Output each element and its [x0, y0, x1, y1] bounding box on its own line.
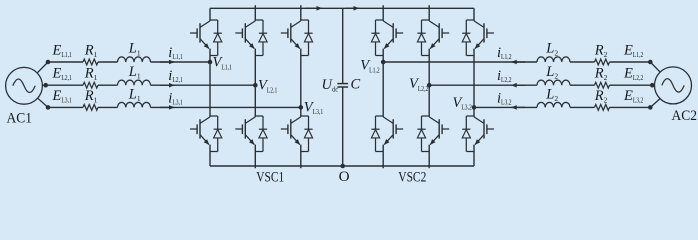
svg-text:AC1: AC1	[7, 110, 33, 127]
svg-text:AC2: AC2	[672, 107, 698, 124]
svg-text:C: C	[351, 77, 361, 93]
svg-text:VSC2: VSC2	[398, 169, 426, 186]
svg-text:O: O	[339, 168, 350, 185]
svg-text:VSC1: VSC1	[256, 169, 284, 186]
